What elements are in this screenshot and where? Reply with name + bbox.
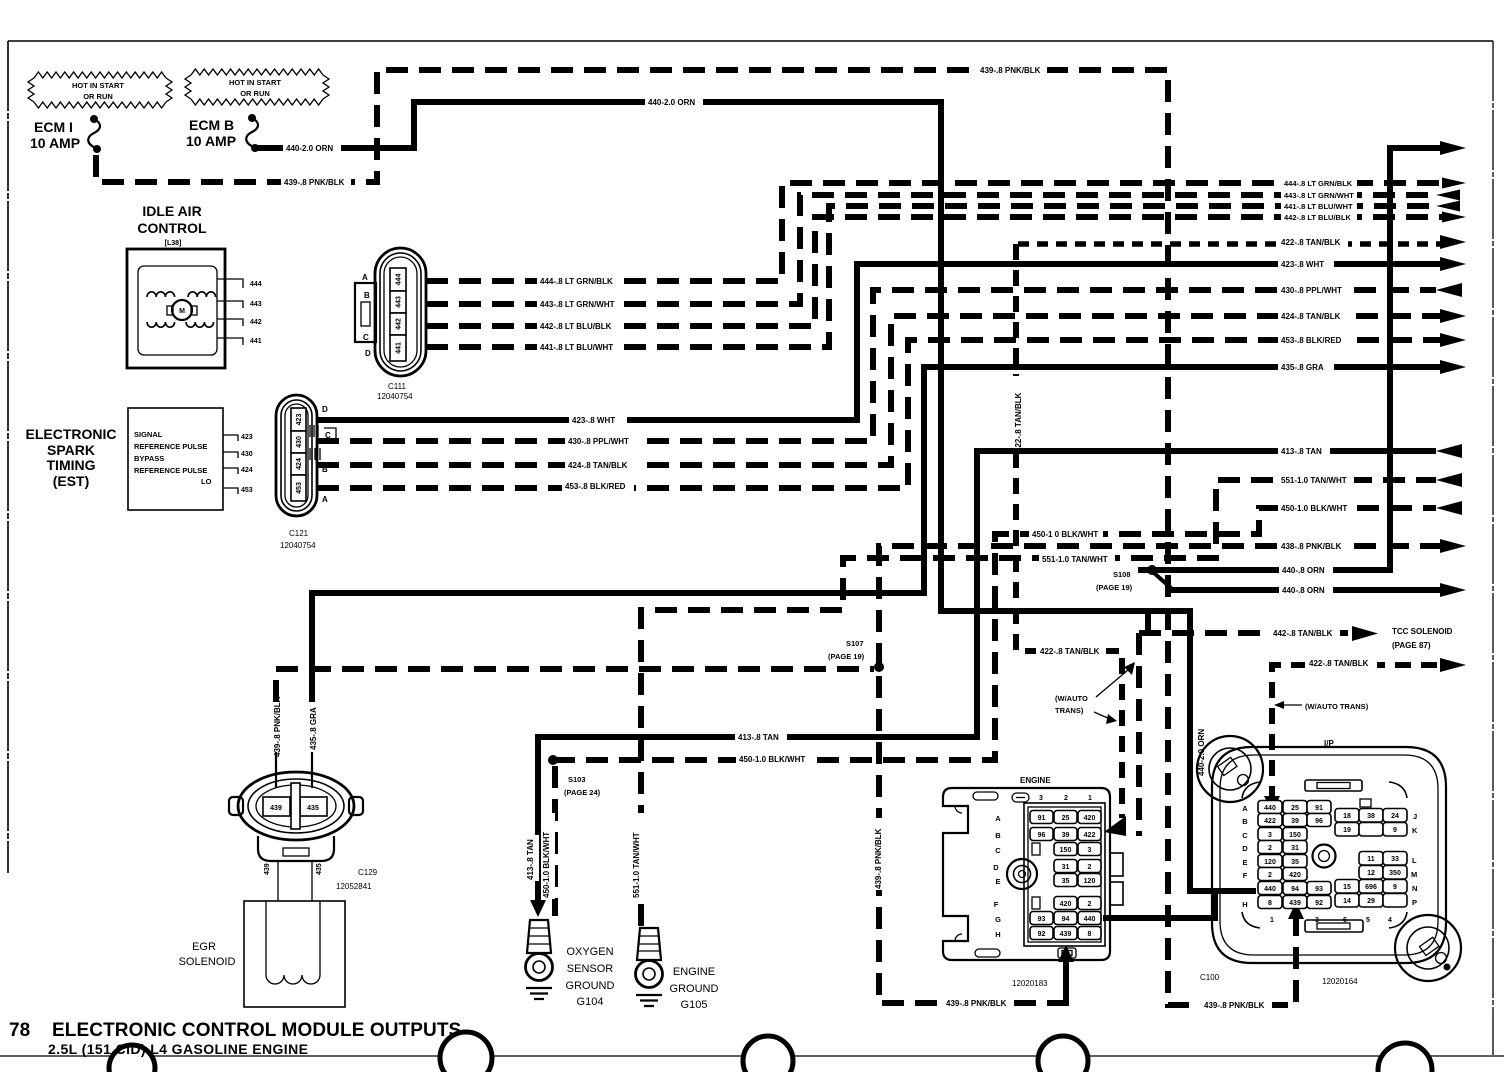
- label 430 right: [1278, 283, 1348, 296]
- I/P pin G2: [1283, 882, 1307, 895]
- label 441 left: [537, 340, 617, 353]
- G105 ring terminal crimp: [637, 928, 661, 960]
- C111 pin 441: [390, 335, 406, 361]
- svg-text:696: 696: [1365, 884, 1377, 891]
- right edge arrow y590: [1440, 583, 1466, 597]
- IAC coil top left: [147, 292, 175, 297]
- svg-text:453-.8 BLK/RED: 453-.8 BLK/RED: [565, 482, 626, 491]
- svg-text:424-.8 TAN/BLK: 424-.8 TAN/BLK: [568, 461, 628, 470]
- I/P pin H3: [1307, 896, 1331, 909]
- svg-text:TIMING: TIMING: [47, 457, 96, 473]
- svg-text:444: 444: [396, 274, 403, 286]
- svg-text:2: 2: [1293, 917, 1297, 924]
- svg-text:453: 453: [296, 482, 303, 494]
- svg-text:440: 440: [1084, 916, 1096, 923]
- C129 lower shell: [258, 836, 334, 861]
- svg-text:435-.8 GRA: 435-.8 GRA: [1281, 363, 1324, 372]
- svg-text:422-.8 TAN/BLK: 422-.8 TAN/BLK: [1309, 659, 1369, 668]
- svg-text:422: 422: [1264, 818, 1276, 825]
- svg-text:39: 39: [1291, 818, 1299, 825]
- svg-text:(PAGE 19): (PAGE 19): [828, 652, 865, 661]
- svg-text:SIGNAL: SIGNAL: [134, 430, 163, 439]
- svg-text:430: 430: [241, 451, 253, 458]
- label 440-.8 ORN (upper): [1279, 563, 1333, 576]
- ENGINE connector notch details: [955, 806, 962, 941]
- right edge arrow y195 (left): [1436, 190, 1460, 201]
- svg-text:450-1 0 BLK/WHT: 450-1 0 BLK/WHT: [1032, 530, 1098, 539]
- fuse ECM I symbol: [90, 115, 98, 123]
- right edge arrow y665: [1440, 658, 1466, 672]
- I/P pin E1: [1258, 855, 1282, 868]
- connector C121 outer shell: [276, 395, 317, 516]
- S108 label: [1096, 565, 1138, 591]
- ENGINE pin A2: [1054, 811, 1077, 824]
- I/P corner arcs: [1242, 782, 1407, 928]
- svg-text:439: 439: [264, 863, 271, 875]
- svg-text:S103: S103: [568, 775, 586, 784]
- svg-text:A: A: [322, 495, 328, 504]
- wire 422-.8 TAN/BLK (w/auto trans, lower right): [1272, 665, 1437, 798]
- I/P connector ear top-left: [1197, 736, 1263, 802]
- svg-text:442-.8 LT BLU/BLK: 442-.8 LT BLU/BLK: [540, 322, 612, 331]
- svg-text:K: K: [1412, 826, 1418, 835]
- ENGINE pin B2: [1054, 828, 1077, 841]
- wire 413-.8 TAN: from G104 up, right y=737, up x=977, right y=451: [538, 451, 1436, 903]
- svg-text:D: D: [993, 863, 999, 872]
- svg-text:3: 3: [1268, 832, 1272, 839]
- wire 440-2.0 ORN from ECM B fuse: right, up, along y=102, down x=941, right y=611, down x=1190, into I/P pin G-440: [255, 102, 1256, 891]
- svg-text:453: 453: [241, 487, 253, 494]
- svg-text:442: 442: [250, 319, 262, 326]
- ENGINE pin D1: [1078, 860, 1101, 873]
- svg-text:[L38]: [L38]: [165, 240, 182, 247]
- svg-text:M: M: [179, 308, 185, 315]
- arrow into I/P pin A-440: [1264, 796, 1280, 813]
- svg-text:LO: LO: [201, 477, 212, 486]
- svg-text:GROUND: GROUND: [566, 980, 615, 992]
- svg-text:2: 2: [1088, 901, 1092, 908]
- svg-text:413-.8 TAN: 413-.8 TAN: [738, 733, 779, 742]
- S108 diagonal branch: [1153, 572, 1172, 589]
- svg-text:92: 92: [1038, 931, 1046, 938]
- wire 440 ENGINE G1 to I/P G: [1103, 891, 1215, 918]
- svg-text:24: 24: [1391, 813, 1399, 820]
- label 424 right: [1278, 309, 1348, 322]
- I/P pin P3: [1383, 894, 1407, 908]
- svg-text:11: 11: [1367, 856, 1375, 863]
- svg-text:OR RUN: OR RUN: [240, 89, 270, 98]
- svg-text:E: E: [1242, 858, 1247, 867]
- svg-text:ECM B: ECM B: [189, 117, 234, 133]
- ENGINE pin E2: [1054, 874, 1077, 887]
- svg-text:HOT IN START: HOT IN START: [229, 78, 281, 87]
- svg-text:(W/AUTO TRANS): (W/AUTO TRANS): [1305, 702, 1369, 711]
- svg-text:444-.8 LT GRN/BLK: 444-.8 LT GRN/BLK: [540, 277, 613, 286]
- svg-text:REFERENCE PULSE: REFERENCE PULSE: [134, 466, 207, 475]
- svg-text:F: F: [994, 900, 999, 909]
- svg-text:B: B: [1242, 817, 1248, 826]
- C121 pin 423: [291, 408, 306, 431]
- label 440-.8 ORN (lower): [1279, 583, 1333, 596]
- svg-text:441: 441: [396, 342, 403, 354]
- binder hole circle 1: [109, 1045, 155, 1072]
- svg-text:450-1.0 BLK/WHT: 450-1.0 BLK/WHT: [739, 755, 805, 764]
- svg-text:C: C: [363, 333, 369, 342]
- I/P pin A2: [1283, 801, 1307, 814]
- svg-text:H: H: [995, 930, 1000, 939]
- svg-text:150: 150: [1060, 847, 1072, 854]
- svg-text:423: 423: [296, 414, 303, 426]
- frame right border: [1492, 41, 1494, 1055]
- C121 tick marks: [310, 425, 336, 466]
- binder hole circle 3: [743, 1036, 793, 1072]
- svg-text:TRANS): TRANS): [1055, 706, 1084, 715]
- svg-text:GROUND: GROUND: [670, 983, 719, 995]
- ENGINE pin G2: [1054, 912, 1077, 925]
- svg-text:439-.8 PNK/BLK: 439-.8 PNK/BLK: [946, 999, 1007, 1008]
- C111 pin 442: [390, 313, 406, 335]
- ENGINE top icon: [1012, 793, 1029, 802]
- IAC coil bottom left: [147, 322, 175, 327]
- ENGINE bolt: [1007, 859, 1037, 889]
- EST box: [128, 408, 223, 510]
- label 422 at elbow: [1036, 644, 1106, 657]
- ENGINE pin F2: [1054, 897, 1077, 910]
- svg-text:2: 2: [1268, 845, 1272, 852]
- hot in start or run box 2 (zigzag): [185, 69, 329, 105]
- I/P pin L2: [1359, 852, 1383, 866]
- ENGINE pin B3: [1030, 828, 1053, 841]
- svg-text:93: 93: [1038, 916, 1046, 923]
- ENGINE pin H1: [1078, 927, 1101, 940]
- label 438 right: [1278, 539, 1348, 552]
- fuse ECM B symbol: [248, 114, 256, 122]
- ENGINE pin B1: [1078, 828, 1101, 841]
- frame bottom border: [0, 1055, 1504, 1057]
- label 439-.8 PNK/BLK (ECM I): [281, 175, 351, 188]
- svg-text:423-.8 WHT: 423-.8 WHT: [572, 416, 615, 425]
- svg-text:440-.8 ORN: 440-.8 ORN: [1282, 586, 1325, 595]
- svg-text:39: 39: [1062, 832, 1070, 839]
- label 551 right: [1278, 473, 1354, 486]
- svg-text:19: 19: [1343, 827, 1351, 834]
- svg-text:9: 9: [1393, 827, 1397, 834]
- label 435 right: [1278, 360, 1334, 373]
- svg-text:12020183: 12020183: [1012, 979, 1048, 988]
- IAC coil top right: [188, 292, 216, 297]
- wire 443-.8 LT GRN/WHT: [426, 195, 1436, 304]
- connector C129 (EGR) outer oval: [238, 772, 354, 840]
- svg-text:96: 96: [1315, 818, 1323, 825]
- svg-text:N: N: [1412, 884, 1417, 893]
- label 424 left: [565, 458, 637, 471]
- binder hole circle 4: [1038, 1036, 1088, 1072]
- ENGINE pin C tab: [1032, 843, 1040, 855]
- svg-text:420: 420: [1060, 901, 1072, 908]
- label 413 mid: [735, 730, 787, 743]
- svg-text:443-.8 LT GRN/WHT: 443-.8 LT GRN/WHT: [1284, 191, 1354, 200]
- svg-text:551-1.0 TAN/WHT: 551-1.0 TAN/WHT: [1042, 555, 1108, 564]
- C121 pin 430: [291, 431, 306, 453]
- svg-text:440-.8 ORN: 440-.8 ORN: [1282, 566, 1325, 575]
- svg-text:(PAGE 87): (PAGE 87): [1392, 641, 1431, 650]
- ENGINE connector body: [943, 788, 1110, 960]
- wire 444-.8 LT GRN/BLK: [426, 183, 1442, 281]
- label 444 left: [537, 274, 617, 287]
- svg-text:430: 430: [296, 436, 303, 448]
- svg-text:3: 3: [1088, 847, 1092, 854]
- label 439 bottom (left of ENGINE): [943, 996, 1013, 1009]
- ENGINE pin C2: [1054, 843, 1077, 856]
- svg-text:25: 25: [1062, 815, 1070, 822]
- svg-text:442-.8 TAN/BLK: 442-.8 TAN/BLK: [1273, 629, 1333, 638]
- IAC coil bottom right: [186, 322, 214, 327]
- svg-text:442: 442: [396, 318, 403, 330]
- svg-text:25: 25: [1291, 805, 1299, 812]
- ENGINE pin F tab: [1032, 897, 1040, 909]
- I/P pin H1: [1258, 896, 1282, 909]
- wire 450 down to G104: [552, 766, 558, 916]
- wire 422-.8 TAN/BLK vertical drop to ENGINE pin B-422: [1016, 244, 1122, 818]
- I/P connector inner outline: [1220, 755, 1438, 955]
- svg-text:D: D: [322, 405, 328, 414]
- label 422 right: [1278, 235, 1348, 248]
- label 443 left: [537, 297, 617, 310]
- I/P pin J2: [1359, 809, 1383, 823]
- svg-text:M: M: [1411, 870, 1417, 879]
- frame top border: [8, 40, 1493, 42]
- I/P center circle: [1313, 845, 1336, 868]
- svg-text:8: 8: [1088, 931, 1092, 938]
- ENGINE bottom slot: [975, 949, 1000, 957]
- svg-text:91: 91: [1315, 805, 1323, 812]
- svg-text:439: 439: [1289, 900, 1301, 907]
- C129 pin 439: [263, 797, 290, 816]
- I/P pin P1: [1335, 894, 1359, 908]
- svg-text:440-2.0 ORN: 440-2.0 ORN: [648, 98, 695, 107]
- EST lead 453: [223, 488, 238, 494]
- EGR 439 pin lead: [275, 752, 277, 788]
- I/P pin G1: [1258, 882, 1282, 895]
- I/P pin J3: [1383, 809, 1407, 823]
- svg-text:91: 91: [1038, 815, 1046, 822]
- svg-text:3: 3: [1039, 795, 1043, 802]
- svg-text:435: 435: [307, 805, 319, 812]
- svg-text:120: 120: [1264, 859, 1276, 866]
- I/P pin B3: [1307, 814, 1331, 827]
- I/P pin C2: [1283, 828, 1307, 841]
- I/P top tab: [1305, 780, 1362, 791]
- EST lead 423: [223, 435, 238, 441]
- I/P pin K1: [1335, 823, 1359, 837]
- I/P pin L3: [1383, 852, 1407, 866]
- svg-text:413-.8 TAN: 413-.8 TAN: [526, 839, 535, 880]
- I/P JK block tab: [1360, 799, 1371, 807]
- svg-text:33: 33: [1391, 856, 1399, 863]
- svg-text:78: 78: [9, 1020, 30, 1041]
- svg-text:P: P: [1412, 898, 1417, 907]
- svg-text:OR RUN: OR RUN: [83, 92, 113, 101]
- wire 440-.8 ORN (S108 main): [1133, 567, 1390, 573]
- I/P pin M3: [1383, 866, 1407, 880]
- label 440-2.0 ORN (fuse output): [283, 141, 341, 154]
- svg-text:A: A: [1242, 804, 1248, 813]
- svg-text:150: 150: [1289, 832, 1301, 839]
- frame left border: [7, 41, 9, 873]
- EGR 435 pin lead: [311, 752, 313, 788]
- arrow to TCC solenoid: [1352, 626, 1378, 641]
- G105 ring: [636, 961, 663, 988]
- svg-text:38: 38: [1367, 813, 1375, 820]
- I/P connector body: [1212, 747, 1446, 963]
- right edge arrow y242: [1440, 235, 1466, 249]
- svg-text:ENGINE: ENGINE: [673, 966, 715, 978]
- right edge arrow y316: [1440, 309, 1466, 323]
- ENGINE pin block: [1024, 803, 1105, 946]
- svg-text:422-.8 TAN/BLK: 422-.8 TAN/BLK: [1281, 238, 1341, 247]
- C129 left tab: [229, 797, 243, 815]
- right edge arrow y290 (left): [1436, 283, 1462, 297]
- wire 551-1.0 TAN/WHT: G105 up x=641, right y=610, up x=843, right y=558, up x=1216, right y=480: [641, 480, 1436, 926]
- C121 pin 424: [291, 453, 306, 475]
- svg-text:OXYGEN: OXYGEN: [566, 946, 613, 958]
- ENGINE pin A1: [1078, 811, 1101, 824]
- svg-text:12052841: 12052841: [336, 882, 372, 891]
- svg-text:439-.8 PNK/BLK: 439-.8 PNK/BLK: [273, 696, 282, 757]
- svg-text:EGR: EGR: [192, 941, 216, 953]
- I/P pin A3: [1307, 801, 1331, 814]
- svg-text:J: J: [1413, 812, 1417, 821]
- svg-text:12040754: 12040754: [280, 541, 316, 550]
- label 551 rotated: [633, 813, 645, 899]
- svg-text:IDLE AIR: IDLE AIR: [142, 203, 201, 219]
- svg-text:92: 92: [1315, 900, 1323, 907]
- svg-text:450-1.0 BLK/WHT: 450-1.0 BLK/WHT: [542, 832, 551, 898]
- label 430 left: [565, 434, 637, 447]
- svg-text:29: 29: [1367, 898, 1375, 905]
- C111 pin 444: [390, 268, 406, 291]
- label 453 left: [562, 479, 634, 492]
- I/P pin B2: [1283, 814, 1307, 827]
- svg-text:C: C: [995, 846, 1001, 855]
- IAC lead 442: [217, 319, 243, 326]
- svg-text:551-1.0 TAN/WHT: 551-1.0 TAN/WHT: [632, 832, 641, 898]
- right edge arrow y508 (left): [1436, 501, 1462, 515]
- ENGINE pin H3: [1030, 927, 1053, 940]
- svg-text:HOT IN START: HOT IN START: [72, 81, 124, 90]
- IAC lead 444: [217, 279, 243, 288]
- arrow into ENGINE pin 422: [1104, 816, 1126, 836]
- ENGINE pin H2: [1054, 927, 1077, 940]
- label 423 left: [569, 413, 627, 426]
- svg-text:450-1.0 BLK/WHT: 450-1.0 BLK/WHT: [1281, 504, 1347, 513]
- svg-text:439-.8 PNK/BLK: 439-.8 PNK/BLK: [1204, 1001, 1265, 1010]
- svg-text:1: 1: [1088, 795, 1092, 802]
- svg-text:B: B: [364, 291, 370, 300]
- svg-text:BYPASS: BYPASS: [134, 454, 164, 463]
- right edge arrow y148: [1440, 141, 1466, 155]
- svg-text:94: 94: [1291, 886, 1299, 893]
- svg-text:442-.8 LT BLU/BLK: 442-.8 LT BLU/BLK: [1284, 213, 1352, 222]
- svg-text:G104: G104: [577, 996, 604, 1008]
- svg-text:443-.8 LT GRN/WHT: 443-.8 LT GRN/WHT: [540, 300, 615, 309]
- C129 center key: [291, 783, 300, 829]
- svg-text:430-.8 PPL/WHT: 430-.8 PPL/WHT: [1281, 286, 1342, 295]
- svg-text:31: 31: [1291, 845, 1299, 852]
- I/P bottom tab: [1305, 920, 1363, 932]
- svg-text:444-.8 LT GRN/BLK: 444-.8 LT GRN/BLK: [1284, 179, 1353, 188]
- I/P pin H2: [1283, 896, 1307, 909]
- svg-text:4: 4: [1388, 917, 1392, 924]
- G104 ring: [526, 954, 553, 981]
- svg-text:439: 439: [1060, 931, 1072, 938]
- I/P pin E2: [1283, 855, 1307, 868]
- C129 pin 435: [300, 797, 327, 816]
- ENGINE pin D2: [1054, 860, 1077, 873]
- ENGINE bottom icon: [1058, 948, 1076, 958]
- G104 ring terminal crimp: [527, 920, 551, 953]
- splice S107 dot: [874, 662, 884, 672]
- ENGINE pin G3: [1030, 912, 1053, 925]
- svg-text:12040754: 12040754: [377, 392, 413, 401]
- wire 439-.8 PNK/BLK EGR branch: [276, 669, 874, 702]
- svg-text:ENGINE: ENGINE: [1020, 776, 1051, 785]
- label 442 right: [1281, 211, 1357, 222]
- idle air control box: [127, 249, 225, 368]
- label 440-2.0 ORN (rotated, at I/P drop): [1194, 712, 1206, 778]
- svg-text:420: 420: [1084, 815, 1096, 822]
- wire 438-.8 PNK/BLK / S107 chain: right run y=546, down x=879, right y=1003, up into ENGINE pin 439: [879, 546, 1442, 1003]
- ENGINE right latch tabs: [1110, 853, 1123, 876]
- right edge arrow y367: [1440, 360, 1466, 374]
- svg-text:422-.8 TAN/BLK: 422-.8 TAN/BLK: [1014, 392, 1023, 452]
- svg-text:(EST): (EST): [53, 473, 90, 489]
- label 450 rotated: [543, 813, 555, 899]
- svg-text:444: 444: [250, 281, 262, 288]
- ENGINE pin C1: [1078, 843, 1101, 856]
- right edge arrow y217: [1442, 212, 1466, 223]
- I/P connector ear bottom-right: [1395, 915, 1461, 981]
- svg-text:C129: C129: [358, 868, 378, 877]
- svg-text:439-.8 PNK/BLK: 439-.8 PNK/BLK: [874, 828, 883, 889]
- wire 442-.8 TAN/BLK to TCC solenoid: [1139, 630, 1348, 636]
- svg-text:D: D: [1242, 844, 1248, 853]
- svg-text:2.5L (151 CID) L4 GASOLINE ENG: 2.5L (151 CID) L4 GASOLINE ENGINE: [48, 1041, 308, 1057]
- svg-text:2: 2: [1268, 872, 1272, 879]
- svg-text:G105: G105: [681, 999, 708, 1011]
- arrow into I/P pin 439: [1288, 902, 1304, 919]
- wire 422-.8 TAN/BLK (to right edge): [1018, 241, 1442, 247]
- label 423 right: [1278, 257, 1334, 270]
- svg-text:435: 435: [316, 863, 323, 875]
- wire 450-1.0 BLK/WHT: S103 dot right, up x=995, right y=534, up x=1259, right y=508: [553, 508, 1436, 760]
- label 443 right: [1281, 189, 1357, 200]
- right edge arrow y480 (left): [1436, 473, 1462, 487]
- svg-text:430-.8 PPL/WHT: 430-.8 PPL/WHT: [568, 437, 629, 446]
- svg-text:2: 2: [1088, 864, 1092, 871]
- I/P pin N3: [1383, 880, 1407, 894]
- svg-text:424: 424: [241, 467, 253, 474]
- ENGINE top slot: [973, 792, 998, 800]
- svg-text:D: D: [365, 349, 371, 358]
- wire 453-.8 BLK/RED: [317, 340, 1442, 488]
- svg-text:441-.8 LT BLU/WHT: 441-.8 LT BLU/WHT: [540, 343, 613, 352]
- svg-text:440: 440: [1264, 805, 1276, 812]
- svg-text:(W/AUTO: (W/AUTO: [1055, 694, 1088, 703]
- label 413 rotated: [527, 835, 539, 881]
- right edge arrow y340: [1440, 333, 1466, 347]
- svg-text:8: 8: [1268, 900, 1272, 907]
